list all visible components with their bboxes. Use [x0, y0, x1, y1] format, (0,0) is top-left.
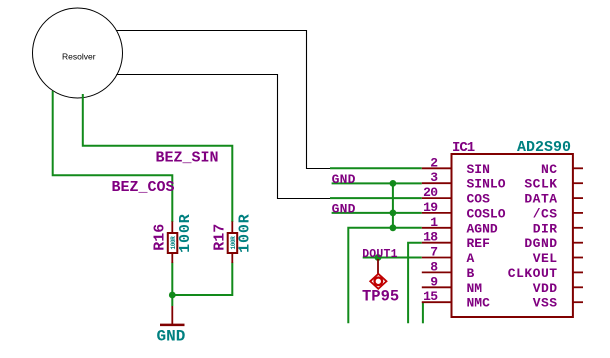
right pin DIR: [573, 227, 583, 229]
pin 2 SIN: [422, 167, 452, 169]
pin 9 NM: [422, 286, 452, 288]
svg-text:AD2S90: AD2S90: [517, 139, 571, 156]
svg-text:GND: GND: [332, 172, 356, 187]
right pin DATA: [573, 197, 583, 199]
svg-text:GND: GND: [332, 202, 356, 217]
right pin /CS: [573, 212, 583, 214]
svg-text:100R: 100R: [237, 213, 254, 253]
pin 3 SINLO: [422, 182, 452, 184]
svg-text:15: 15: [423, 289, 438, 304]
svg-text:GND: GND: [157, 328, 186, 346]
pin 8 B: [422, 271, 452, 273]
svg-text:BEZ_COS: BEZ_COS: [112, 179, 175, 196]
junction pin1: [390, 224, 397, 231]
svg-text:19: 19: [423, 200, 438, 215]
wire green pin3 SINLO (GND): [332, 182, 422, 184]
svg-text:3: 3: [430, 170, 438, 185]
svg-text:1: 1: [430, 215, 438, 230]
wire black S2 (resolver to COS pin 20): [116, 75, 330, 199]
svg-text:9: 9: [430, 274, 438, 289]
svg-text:8: 8: [430, 259, 438, 274]
pin 20 COS: [422, 197, 452, 199]
svg-text:VSS: VSS: [533, 296, 558, 311]
resistor R17: [228, 221, 238, 263]
svg-text:SCLK: SCLK: [524, 177, 557, 192]
svg-text:COS: COS: [467, 192, 491, 207]
right pin SCLK: [573, 182, 583, 184]
test point TP95: [370, 259, 386, 289]
wire green R16 bottom: [171, 263, 173, 296]
wire green pin20 COS: [330, 197, 422, 199]
junction pin3: [390, 180, 397, 187]
right pin VSS: [573, 301, 583, 303]
svg-text:SINLO: SINLO: [467, 177, 506, 192]
svg-text:TP95: TP95: [362, 288, 399, 306]
svg-text:DOUT1: DOUT1: [362, 248, 398, 261]
svg-text:IC1: IC1: [452, 140, 475, 156]
svg-text:REF: REF: [467, 236, 491, 251]
junction GND resistors: [169, 292, 176, 299]
svg-text:NC: NC: [541, 162, 558, 177]
svg-text:COSLO: COSLO: [467, 206, 506, 221]
resolver M1: [33, 8, 123, 98]
svg-text:2: 2: [430, 155, 438, 170]
svg-text:/CS: /CS: [533, 206, 558, 221]
op-amp / IC U1 box AD2S90: [452, 154, 573, 317]
svg-text:NMC: NMC: [467, 296, 491, 311]
svg-text:Resolver: Resolver: [62, 52, 96, 62]
svg-text:18: 18: [423, 230, 438, 245]
pin 19 COSLO: [422, 212, 452, 214]
wire green pin1 AGND: [348, 228, 422, 323]
wire green R17 bottom to junction: [172, 263, 232, 296]
right pin VDD: [573, 286, 583, 288]
wire green BEZ_SIN: [83, 94, 233, 222]
svg-text:DIR: DIR: [533, 221, 558, 236]
wire green pin2 SIN: [330, 167, 422, 169]
right pin VEL: [573, 257, 583, 259]
right pin NC: [573, 167, 583, 169]
ground symbol GND (resistors): [157, 306, 186, 346]
pin 18 REF: [422, 242, 452, 244]
svg-text:20: 20: [423, 185, 438, 200]
svg-text:SIN: SIN: [467, 162, 490, 177]
junction pin19: [390, 210, 397, 217]
wire green pin18 REF: [408, 243, 422, 324]
right pin DGND: [573, 242, 583, 244]
pin 1 AGND: [422, 227, 452, 229]
wire green BEZ_COS: [53, 91, 173, 222]
svg-text:NM: NM: [467, 281, 483, 296]
wire black S1 (resolver to SIN pin 2): [117, 31, 331, 169]
wire green GND stem: [171, 295, 173, 306]
svg-text:AGND: AGND: [467, 221, 498, 236]
wire green GND vertical bus: [392, 183, 394, 227]
svg-text:BEZ_SIN: BEZ_SIN: [156, 150, 219, 167]
svg-text:VEL: VEL: [533, 251, 558, 266]
wire green pin15 NMC: [422, 302, 424, 323]
svg-text:A: A: [467, 251, 475, 266]
svg-text:DGND: DGND: [524, 236, 557, 251]
resistor R16: [168, 221, 178, 263]
svg-text:B: B: [467, 266, 475, 281]
wire green pin7 A (DOUT1): [363, 257, 422, 259]
svg-text:VDD: VDD: [533, 281, 558, 296]
wire green pin19 COSLO (GND): [332, 212, 422, 214]
right pin CLKOUT: [573, 271, 583, 273]
pin 15 NMC: [422, 301, 452, 303]
svg-text:CLKOUT: CLKOUT: [508, 266, 558, 281]
svg-text:7: 7: [430, 245, 437, 260]
svg-text:R16: R16: [152, 224, 169, 251]
svg-text:DATA: DATA: [524, 192, 557, 207]
junction pin7 DOUT1: [375, 254, 382, 261]
svg-text:R17: R17: [211, 224, 228, 251]
pin 7 A: [422, 257, 452, 259]
svg-text:100R: 100R: [177, 213, 194, 253]
